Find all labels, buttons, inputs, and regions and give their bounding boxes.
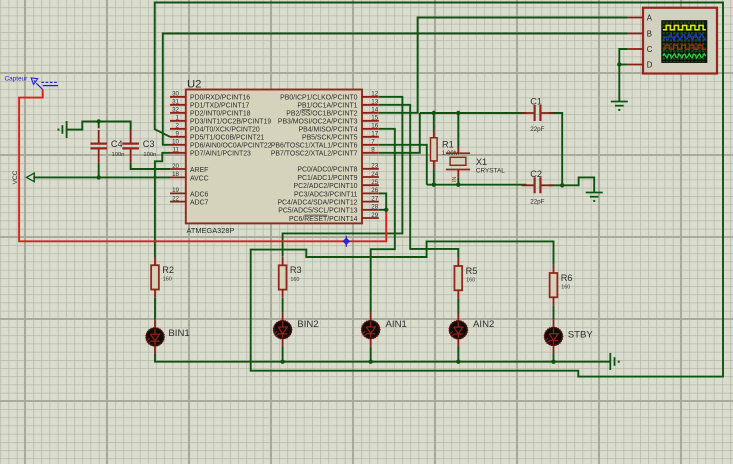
svg-text:AVCC: AVCC bbox=[190, 175, 209, 182]
svg-text:R3: R3 bbox=[290, 265, 302, 275]
svg-text:PB5/SCK/PCINT5: PB5/SCK/PCINT5 bbox=[302, 135, 358, 142]
svg-text:PB0/ICP1/CLKO/PCINT0: PB0/ICP1/CLKO/PCINT0 bbox=[280, 95, 358, 102]
svg-text:22pF: 22pF bbox=[530, 199, 544, 206]
svg-text:PC6/RESET/PCINT14: PC6/RESET/PCINT14 bbox=[289, 216, 358, 223]
svg-text:160: 160 bbox=[290, 277, 299, 283]
svg-text:C2: C2 bbox=[530, 169, 542, 179]
svg-text:PC0/ADC0/PCINT8: PC0/ADC0/PCINT8 bbox=[297, 167, 357, 174]
svg-text:160: 160 bbox=[561, 285, 570, 291]
svg-text:PB6/TOSC1/XTAL1/PCINT6: PB6/TOSC1/XTAL1/PCINT6 bbox=[271, 143, 358, 150]
svg-text:CRYSTAL: CRYSTAL bbox=[476, 168, 505, 175]
svg-text:ATMEGA328P: ATMEGA328P bbox=[187, 226, 235, 235]
svg-text:D: D bbox=[647, 61, 653, 70]
svg-text:PD0/RXD/PCINT16: PD0/RXD/PCINT16 bbox=[190, 95, 250, 102]
svg-text:160: 160 bbox=[163, 277, 172, 283]
svg-text:B: B bbox=[647, 30, 652, 39]
svg-text:PB2/SS/OC1B/PCINT2: PB2/SS/OC1B/PCINT2 bbox=[286, 111, 357, 118]
svg-text:ADC7: ADC7 bbox=[190, 200, 209, 207]
svg-text:PD7/AIN1/PCINT23: PD7/AIN1/PCINT23 bbox=[190, 151, 251, 158]
svg-text:PC5/ADC5/SCL/PCINT13: PC5/ADC5/SCL/PCINT13 bbox=[278, 208, 357, 215]
svg-text:C4: C4 bbox=[111, 139, 123, 149]
svg-text:AREF: AREF bbox=[190, 167, 208, 174]
svg-text:R6: R6 bbox=[561, 273, 573, 283]
svg-text:PD3/INT1/OC2B/PCINT19: PD3/INT1/OC2B/PCINT19 bbox=[190, 119, 271, 126]
svg-text:PD5/T1/OC0B/PCINT21: PD5/T1/OC0B/PCINT21 bbox=[190, 135, 264, 142]
svg-text:PC3/ADC3/PCINT11: PC3/ADC3/PCINT11 bbox=[294, 191, 358, 198]
svg-text:PC1/ADC1/PCINT9: PC1/ADC1/PCINT9 bbox=[297, 175, 357, 182]
svg-text:U2: U2 bbox=[187, 79, 201, 91]
svg-text:R1: R1 bbox=[442, 139, 454, 149]
svg-text:PD1/TXD/PCINT17: PD1/TXD/PCINT17 bbox=[190, 103, 250, 110]
svg-text:PD4/T0/XCK/PCINT20: PD4/T0/XCK/PCINT20 bbox=[190, 127, 260, 134]
svg-text:PD2/INT0/PCINT18: PD2/INT0/PCINT18 bbox=[190, 111, 251, 118]
svg-text:100n: 100n bbox=[143, 152, 156, 158]
svg-text:C: C bbox=[647, 45, 653, 54]
svg-text:100n: 100n bbox=[112, 152, 125, 158]
svg-text:BIN2: BIN2 bbox=[297, 319, 318, 330]
svg-text:22pF: 22pF bbox=[530, 126, 544, 133]
svg-text:AIN2: AIN2 bbox=[473, 319, 494, 330]
svg-text:AIN1: AIN1 bbox=[386, 319, 407, 330]
svg-text:PD6/AIN0/OC0A/PCINT22: PD6/AIN0/OC0A/PCINT22 bbox=[190, 143, 272, 150]
svg-text:C3: C3 bbox=[143, 139, 155, 149]
svg-text:Capteur: Capteur bbox=[5, 75, 29, 82]
svg-text:C1: C1 bbox=[530, 97, 542, 107]
svg-text:PC4/ADC4/SDA/PCINT12: PC4/ADC4/SDA/PCINT12 bbox=[277, 200, 357, 207]
svg-text:PB1/OC1A/PCINT1: PB1/OC1A/PCINT1 bbox=[297, 103, 357, 110]
svg-text:A: A bbox=[647, 14, 653, 23]
svg-text:STBY: STBY bbox=[568, 329, 594, 340]
svg-text:BIN1: BIN1 bbox=[168, 328, 189, 339]
svg-text:PB4/MISO/PCINT4: PB4/MISO/PCINT4 bbox=[299, 127, 358, 134]
svg-text:160: 160 bbox=[466, 278, 475, 284]
svg-text:PB3/MOSI/OC2A/PCINT3: PB3/MOSI/OC2A/PCINT3 bbox=[278, 119, 358, 126]
svg-text:IN: IN bbox=[452, 177, 458, 182]
svg-text:X1: X1 bbox=[476, 157, 487, 167]
svg-text:PB7/TOSC2/XTAL2/PCINT7: PB7/TOSC2/XTAL2/PCINT7 bbox=[271, 151, 358, 158]
svg-text:PC2/ADC2/PCINT10: PC2/ADC2/PCINT10 bbox=[294, 183, 358, 190]
svg-text:R5: R5 bbox=[466, 266, 478, 276]
svg-text:ADC6: ADC6 bbox=[190, 191, 209, 198]
svg-text:VCC: VCC bbox=[12, 170, 19, 184]
svg-text:R2: R2 bbox=[162, 265, 174, 275]
